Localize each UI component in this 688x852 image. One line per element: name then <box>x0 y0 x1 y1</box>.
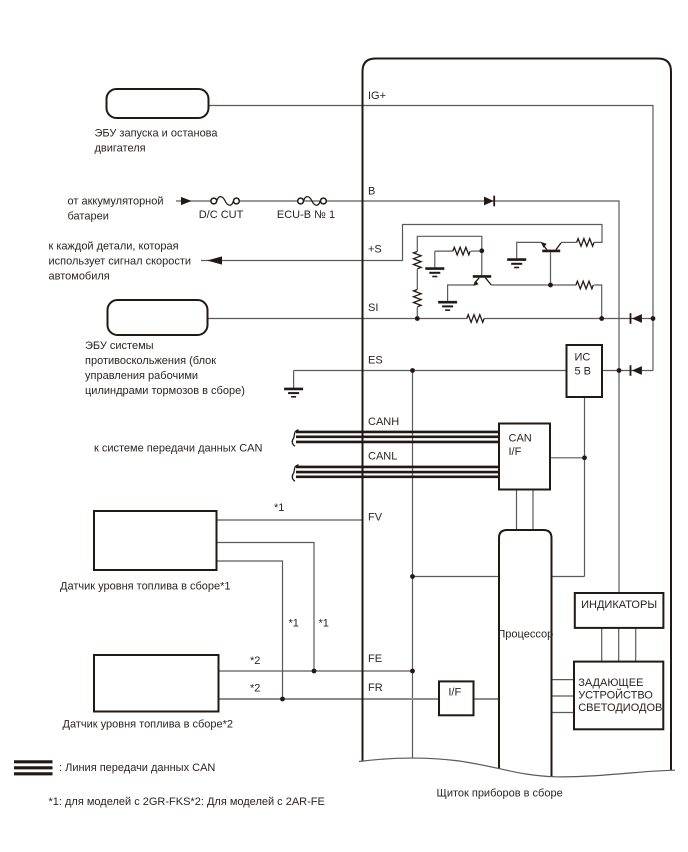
wire R3 right to node <box>471 250 482 252</box>
svg-text:ECU-B № 1: ECU-B № 1 <box>277 209 335 221</box>
resistor R2 vertical lower <box>414 290 422 307</box>
node dot R2 on SI <box>415 316 420 321</box>
svg-text:цилиндрами тормозов в сборе): цилиндрами тормозов в сборе) <box>85 385 245 397</box>
svg-text:D/C CUT: D/C CUT <box>199 209 244 221</box>
wire processor to LED driver horizontals <box>552 680 575 713</box>
arrow on B line pointing right <box>181 197 192 205</box>
diode D1 on B line <box>484 197 494 206</box>
wire inner bracket over R1 and R3 junction <box>417 236 482 251</box>
wire fuel sender 1 third output <box>217 561 283 699</box>
wire indicators to LED driver verticals <box>602 628 636 662</box>
transistor Q2 <box>542 250 560 253</box>
svg-text:использует сигнал скорости: использует сигнал скорости <box>49 256 192 268</box>
wire T1 emitter to ground G2 <box>448 285 474 301</box>
resistor R6 on SI line <box>467 315 484 323</box>
node dot sender1 line3 on FR <box>280 697 285 702</box>
wire IC 5V bottom lead down <box>584 397 586 577</box>
wire B from battery through fuses to cluster, down to indicators <box>176 200 213 202</box>
fuel sender 1 box <box>94 511 217 570</box>
wire T2 base lead down to rail <box>550 252 552 285</box>
indicators box <box>575 593 664 628</box>
svg-text:Щиток приборов в сборе: Щиток приборов в сборе <box>437 788 563 800</box>
svg-text:СВЕТОДИОДОВ: СВЕТОДИОДОВ <box>578 702 662 714</box>
svg-text:5 В: 5 В <box>575 365 592 377</box>
IC 5V box <box>567 345 603 397</box>
wire FE from fuel sender 2 <box>219 670 413 672</box>
ground G3 <box>507 258 526 261</box>
svg-text:: Линия передачи данных CAN: : Линия передачи данных CAN <box>59 762 215 774</box>
node dot R5 branch on SI <box>599 316 604 321</box>
node dot R3-Q1 base <box>479 248 484 253</box>
ground G2 <box>438 301 457 304</box>
wire IG+ from start/stop ECU to cluster, right along top, down right side <box>209 106 654 371</box>
wire fuel sender 1 second output <box>217 543 315 672</box>
svg-text:*1: *1 <box>319 618 329 630</box>
svg-text:FE: FE <box>368 653 382 665</box>
diode D2 on SI line <box>632 314 642 323</box>
wire R3 left to ground G1 corner <box>435 251 453 267</box>
wire FR from fuel sender 2 to I/F to processor <box>219 698 500 700</box>
torn edge wave line <box>359 758 675 777</box>
svg-text:батареи: батареи <box>68 211 109 223</box>
node dot SI diode to IG+ rail <box>651 316 656 321</box>
CANH shielded cable <box>296 432 499 442</box>
node dot B rail on ES line <box>617 368 622 373</box>
svg-text:ИС: ИС <box>575 352 591 364</box>
ground G4 outside on ES <box>284 388 303 391</box>
processor box outline <box>499 530 552 779</box>
node dot ES to long vertical <box>410 368 415 373</box>
svg-text:B: B <box>368 186 375 198</box>
I/F box <box>439 681 474 715</box>
wire CAN I/F right output <box>550 457 585 459</box>
LED driver box <box>574 662 663 730</box>
svg-text:управления рабочими: управления рабочими <box>85 370 198 382</box>
svg-text:двигателя: двигателя <box>95 143 146 155</box>
svg-text:к системе передачи данных CAN: к системе передачи данных CAN <box>94 443 263 455</box>
CANL shielded cable <box>296 467 499 477</box>
diode D3 on ES line <box>632 366 642 375</box>
wire SI from skid control ECU across cluster <box>208 318 654 320</box>
fuel sender 2 box <box>94 655 219 712</box>
svg-text:к каждой детали, которая: к каждой детали, которая <box>49 241 179 253</box>
svg-text:*2: *2 <box>250 683 260 695</box>
svg-text:CANL: CANL <box>368 451 397 463</box>
svg-text:ЗАДАЮЩЕЕ: ЗАДАЮЩЕЕ <box>578 677 643 689</box>
wire between R1 and R2 <box>416 269 418 289</box>
wire T1 collector rail to R5 and down to SI <box>491 285 602 319</box>
svg-text:I/F: I/F <box>509 446 522 458</box>
svg-text:*1: для моделей с 2GR-FKS*2: Д: *1: для моделей с 2GR-FKS*2: Для моделей… <box>49 796 325 808</box>
svg-text:FR: FR <box>368 682 383 694</box>
ECU box skid control <box>108 300 208 335</box>
torn edge mask <box>358 758 676 852</box>
transistor Q1 <box>473 275 491 278</box>
processor box fill <box>500 531 551 775</box>
svg-text:автомобиля: автомобиля <box>49 271 110 283</box>
svg-text:IG+: IG+ <box>368 90 386 102</box>
svg-text:ЭБУ запуска и останова: ЭБУ запуска и останова <box>95 128 219 140</box>
svg-text:ES: ES <box>368 355 383 367</box>
wire CAN I/F to processor verticals <box>517 490 534 531</box>
legend CAN line symbol <box>14 762 53 774</box>
arrow on +S line pointing left <box>207 256 222 264</box>
fuse D/C CUT <box>217 197 233 206</box>
svg-text:Датчик уровня топлива в сборе*: Датчик уровня топлива в сборе*1 <box>60 581 231 593</box>
node dot sender1 line2 on FE <box>312 669 317 674</box>
resistor R4 top right <box>577 239 594 247</box>
svg-text:CAN: CAN <box>509 432 532 444</box>
node dot FE junction long vertical <box>410 669 415 674</box>
svg-text:ИНДИКАТОРЫ: ИНДИКАТОРЫ <box>581 599 657 611</box>
ECU box engine start/stop <box>107 89 209 118</box>
svg-text:I/F: I/F <box>448 686 461 698</box>
wire T2 emitter to ground G3 <box>517 242 542 258</box>
fuse ECU-B No.1 <box>304 197 320 206</box>
svg-text:FV: FV <box>368 512 383 524</box>
node dot Q2 base on rail <box>548 283 553 288</box>
combination meter outer case <box>363 59 672 774</box>
svg-text:*1: *1 <box>274 502 284 514</box>
svg-text:Процессор: Процессор <box>497 629 553 641</box>
wire long vertical node ES-FE <box>412 371 414 764</box>
svg-text:*1: *1 <box>289 618 299 630</box>
resistor R5 collector rail <box>576 281 593 289</box>
svg-text:от аккумуляторной: от аккумуляторной <box>68 196 164 208</box>
resistor R1 vertical upper <box>414 252 422 269</box>
wire FV from fuel sender 1 <box>217 519 363 521</box>
svg-text:SI: SI <box>368 302 378 314</box>
svg-text:ЭБУ системы: ЭБУ системы <box>85 340 154 352</box>
svg-text:противоскольжения (блок: противоскольжения (блок <box>85 355 216 367</box>
node dot long vertical to processor line <box>410 574 415 579</box>
wire node line to processor (behind processor) <box>413 576 585 578</box>
resistor R3 horizontal base <box>453 247 470 255</box>
svg-text:CANH: CANH <box>368 416 399 428</box>
CAN I/F box <box>499 424 550 490</box>
wire +S from speed-signal parts into transistor network top rail <box>201 225 602 261</box>
svg-text:*2: *2 <box>250 655 260 667</box>
wire R2 bottom to SI node <box>416 307 418 318</box>
wire ES to ground outside and to IC box, diode to IG+ rail <box>294 371 653 388</box>
svg-text:+S: +S <box>368 244 382 256</box>
ground G1 <box>425 267 444 270</box>
wire T1 base lead <box>481 251 483 275</box>
node dot IC lead and CAN I/F output <box>582 455 587 460</box>
svg-text:УСТРОЙСТВО: УСТРОЙСТВО <box>578 689 653 702</box>
svg-text:Датчик уровня топлива в сборе*: Датчик уровня топлива в сборе*2 <box>63 719 234 731</box>
wire T2 collector to resistor R4 <box>561 241 577 243</box>
